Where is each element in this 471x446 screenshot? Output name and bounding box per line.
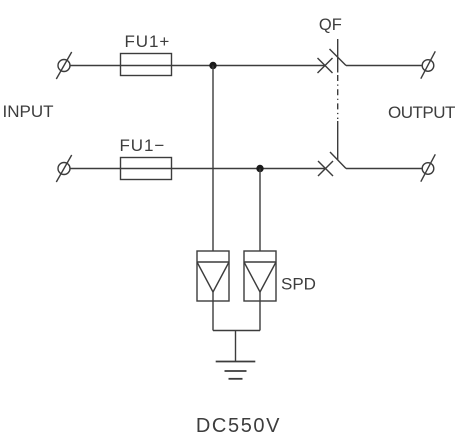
wire input- to breaker contact	[70, 168, 326, 170]
terminal input positive	[56, 52, 71, 79]
terminal output positive	[421, 51, 436, 78]
svg-text:OUTPUT: OUTPUT	[388, 103, 455, 122]
wire SPD1 to bus	[212, 301, 214, 331]
fuse FU1+	[121, 54, 172, 76]
wire vertical dropper to SPD2	[259, 169, 261, 252]
wire ground bus	[213, 330, 260, 332]
SPD arrester 1	[197, 251, 229, 301]
junction dot bottom	[256, 165, 263, 172]
svg-text:QF: QF	[319, 16, 342, 34]
wire breaker to output+	[346, 65, 422, 67]
svg-text:FU1+: FU1+	[125, 32, 171, 51]
svg-text:DC550V: DC550V	[196, 415, 281, 437]
wire input+ to breaker contact	[70, 65, 325, 67]
svg-text:INPUT: INPUT	[3, 102, 54, 121]
breaker QF linkage lower solid	[337, 121, 339, 160]
svg-text:FU1−: FU1−	[120, 136, 166, 155]
junction dot top	[209, 62, 216, 69]
wire ground stem	[235, 331, 237, 362]
breaker QF contact X top	[318, 58, 333, 73]
breaker QF contact X bottom	[318, 161, 333, 176]
breaker QF linkage dash-dot	[337, 75, 339, 119]
terminal output negative	[421, 154, 436, 181]
breaker QF linkage upper solid	[337, 39, 339, 73]
fuse FU1-	[121, 158, 172, 180]
breaker QF blade bottom	[330, 152, 346, 169]
wire SPD2 to bus	[259, 301, 261, 331]
wire breaker to output-	[346, 168, 422, 170]
SPD arrester 2	[244, 251, 276, 301]
ground	[216, 362, 256, 379]
terminal input negative	[56, 155, 71, 182]
wire vertical dropper to SPD1	[212, 66, 214, 252]
breaker QF blade top	[330, 49, 347, 66]
svg-text:SPD: SPD	[281, 275, 316, 294]
